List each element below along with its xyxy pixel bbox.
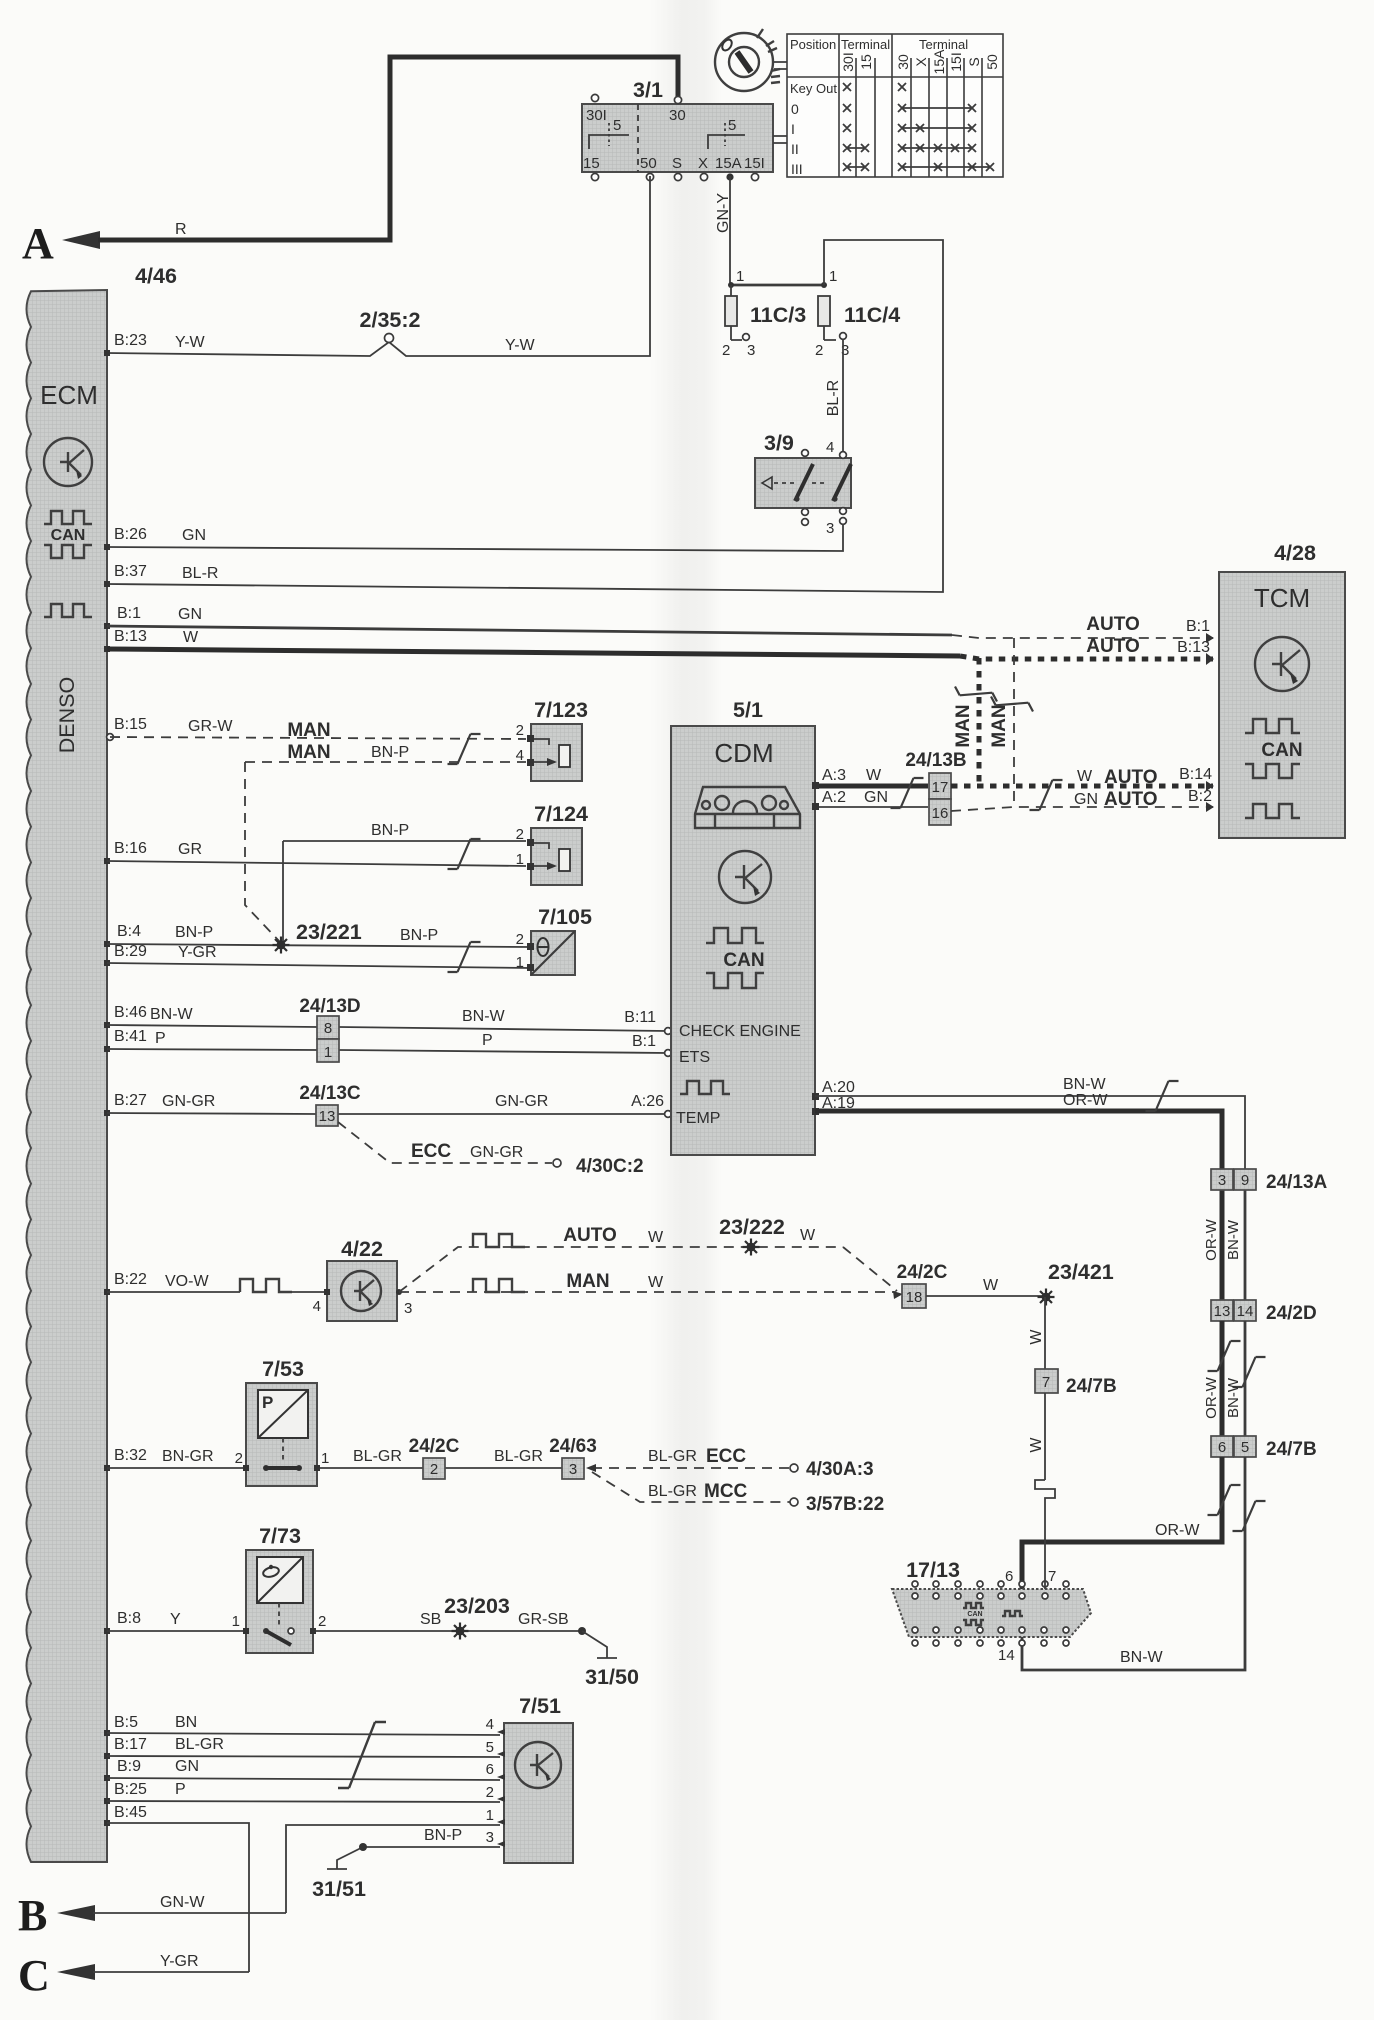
svg-text:B:26: B:26 (114, 526, 147, 543)
svg-text:B:4: B:4 (117, 923, 141, 940)
svg-text:BL-R: BL-R (182, 565, 218, 582)
svg-text:B:13: B:13 (1177, 639, 1210, 656)
svg-text:ETS: ETS (679, 1049, 710, 1066)
svg-text:2: 2 (516, 826, 524, 843)
svg-text:24/2C: 24/2C (409, 1436, 460, 1457)
svg-text:B:14: B:14 (1179, 766, 1212, 783)
svg-text:GN-GR: GN-GR (495, 1093, 548, 1110)
svg-text:X: X (698, 155, 708, 172)
svg-text:1: 1 (232, 1613, 240, 1630)
svg-text:24/2D: 24/2D (1266, 1303, 1317, 1324)
svg-text:Y: Y (170, 1611, 181, 1628)
svg-text:B:32: B:32 (114, 1447, 147, 1464)
svg-text:GN-Y: GN-Y (715, 193, 732, 233)
svg-text:6: 6 (1005, 1568, 1013, 1585)
svg-text:15: 15 (583, 155, 600, 172)
svg-text:AUTO: AUTO (1104, 767, 1157, 788)
svg-text:ECM: ECM (40, 380, 98, 410)
svg-text:C: C (18, 1951, 50, 2000)
svg-text:31/51: 31/51 (312, 1877, 366, 1901)
svg-text:4/30A:3: 4/30A:3 (806, 1459, 874, 1480)
svg-text:B:17: B:17 (114, 1736, 147, 1753)
svg-text:BN-W: BN-W (462, 1008, 506, 1025)
svg-text:W: W (648, 1274, 664, 1291)
svg-text:A:3: A:3 (822, 767, 846, 784)
svg-text:OR-W: OR-W (1063, 1092, 1108, 1109)
svg-text:B:5: B:5 (114, 1714, 138, 1731)
svg-text:GN: GN (1074, 791, 1098, 808)
svg-text:1: 1 (321, 1450, 329, 1467)
svg-text:3: 3 (404, 1300, 412, 1317)
svg-text:30I: 30I (586, 107, 607, 124)
svg-text:VO-W: VO-W (165, 1273, 209, 1290)
svg-text:W: W (866, 767, 882, 784)
svg-text:B:22: B:22 (114, 1271, 147, 1288)
svg-text:B:9: B:9 (117, 1758, 141, 1775)
svg-text:B:1: B:1 (117, 605, 141, 622)
svg-text:0: 0 (791, 101, 799, 117)
svg-text:5/1: 5/1 (733, 698, 763, 722)
svg-text:GN: GN (178, 606, 202, 623)
svg-text:B:16: B:16 (114, 840, 147, 857)
svg-text:AUTO: AUTO (1104, 789, 1157, 810)
svg-text:BN-W: BN-W (1120, 1649, 1164, 1666)
svg-text:OR-W: OR-W (1203, 1376, 1220, 1418)
svg-text:14: 14 (1237, 1303, 1254, 1320)
svg-text:DENSO: DENSO (55, 677, 79, 753)
svg-text:3/57B:22: 3/57B:22 (806, 1494, 884, 1515)
svg-text:7/53: 7/53 (262, 1357, 304, 1381)
svg-text:2: 2 (318, 1613, 326, 1630)
svg-text:4/30C:2: 4/30C:2 (576, 1156, 644, 1177)
svg-text:BN-W: BN-W (1225, 1219, 1242, 1260)
svg-text:24/13B: 24/13B (905, 750, 966, 771)
svg-text:4/46: 4/46 (135, 264, 177, 288)
svg-text:II: II (791, 141, 799, 157)
svg-text:OR-W: OR-W (1203, 1218, 1220, 1260)
svg-text:18: 18 (906, 1289, 923, 1306)
svg-text:17: 17 (932, 779, 949, 796)
svg-text:5: 5 (728, 117, 736, 134)
svg-text:15A: 15A (931, 49, 947, 75)
svg-text:MAN: MAN (287, 742, 330, 763)
svg-text:MAN: MAN (287, 720, 330, 741)
svg-text:B:2: B:2 (1188, 788, 1212, 805)
svg-text:Y-GR: Y-GR (160, 1953, 199, 1970)
svg-text:11C/4: 11C/4 (844, 303, 900, 327)
svg-text:AUTO: AUTO (1086, 614, 1139, 635)
svg-text:W: W (648, 1229, 664, 1246)
svg-text:7/51: 7/51 (519, 1694, 561, 1718)
svg-text:OR-W: OR-W (1155, 1522, 1200, 1539)
svg-text:BL-GR: BL-GR (648, 1483, 697, 1500)
svg-text:7: 7 (1048, 1568, 1056, 1585)
svg-text:24/7B: 24/7B (1266, 1439, 1317, 1460)
svg-text:BL-GR: BL-GR (175, 1736, 224, 1753)
svg-text:16: 16 (932, 805, 949, 822)
svg-text:A:2: A:2 (822, 789, 846, 806)
svg-text:B:46: B:46 (114, 1004, 147, 1021)
svg-text:B:13: B:13 (114, 628, 147, 645)
svg-text:CAN: CAN (967, 1611, 982, 1618)
svg-text:GN-GR: GN-GR (470, 1144, 523, 1161)
svg-text:BN-P: BN-P (371, 744, 409, 761)
svg-text:B:27: B:27 (114, 1092, 147, 1109)
svg-text:23/421: 23/421 (1048, 1260, 1114, 1284)
svg-text:17/13: 17/13 (906, 1558, 960, 1582)
svg-text:6: 6 (486, 1761, 494, 1778)
svg-text:15A: 15A (715, 155, 742, 172)
svg-text:BL-GR: BL-GR (353, 1448, 402, 1465)
svg-text:S: S (966, 57, 982, 66)
svg-text:7/105: 7/105 (538, 905, 592, 929)
svg-text:3: 3 (826, 520, 834, 537)
svg-text:GR-W: GR-W (188, 718, 233, 735)
svg-text:14: 14 (998, 1647, 1015, 1664)
svg-text:S: S (672, 155, 682, 172)
svg-text:B: B (18, 1891, 47, 1940)
svg-text:30: 30 (669, 107, 686, 124)
svg-text:CDM: CDM (714, 738, 773, 768)
svg-text:1: 1 (736, 268, 744, 285)
svg-text:CHECK ENGINE: CHECK ENGINE (679, 1023, 801, 1040)
svg-text:BN-P: BN-P (424, 1827, 462, 1844)
svg-text:Y-W: Y-W (505, 337, 536, 354)
svg-text:2: 2 (722, 342, 730, 359)
svg-text:11C/3: 11C/3 (750, 303, 806, 327)
svg-text:4/28: 4/28 (1274, 541, 1316, 565)
svg-text:I: I (791, 121, 795, 137)
svg-text:TEMP: TEMP (676, 1110, 720, 1127)
svg-text:GN-W: GN-W (160, 1894, 205, 1911)
svg-text:24/13C: 24/13C (299, 1083, 361, 1104)
svg-text:5: 5 (613, 117, 621, 134)
svg-text:15I: 15I (948, 52, 964, 71)
svg-text:P: P (262, 1393, 273, 1412)
svg-text:BN-W: BN-W (1225, 1377, 1242, 1418)
svg-text:8: 8 (324, 1020, 332, 1037)
svg-text:MAN: MAN (953, 704, 974, 747)
svg-text:MAN: MAN (566, 1271, 609, 1292)
svg-text:4: 4 (486, 1716, 494, 1733)
svg-text:3: 3 (486, 1829, 494, 1846)
svg-text:5: 5 (1241, 1439, 1249, 1456)
svg-text:W: W (983, 1277, 999, 1294)
svg-text:BL-GR: BL-GR (648, 1448, 697, 1465)
svg-text:BN: BN (175, 1714, 197, 1731)
svg-text:MCC: MCC (704, 1481, 748, 1502)
svg-text:2: 2 (235, 1450, 243, 1467)
svg-text:15: 15 (858, 54, 874, 70)
svg-text:Terminal: Terminal (841, 37, 890, 52)
svg-text:24/7B: 24/7B (1066, 1376, 1117, 1397)
svg-text:SB: SB (420, 1611, 441, 1628)
svg-text:2: 2 (815, 342, 823, 359)
svg-text:BN-P: BN-P (371, 822, 409, 839)
svg-text:Key Out: Key Out (790, 81, 837, 96)
svg-text:P: P (482, 1032, 493, 1049)
svg-text:B:45: B:45 (114, 1804, 147, 1821)
svg-text:23/203: 23/203 (444, 1594, 510, 1618)
svg-text:BN-W: BN-W (150, 1006, 194, 1023)
svg-text:W: W (1028, 1437, 1045, 1453)
svg-text:W: W (800, 1227, 816, 1244)
svg-text:P: P (175, 1781, 186, 1798)
svg-text:B:37: B:37 (114, 563, 147, 580)
svg-text:3: 3 (569, 1461, 577, 1478)
svg-text:B:41: B:41 (114, 1028, 147, 1045)
svg-text:P: P (155, 1030, 166, 1047)
svg-text:4: 4 (826, 439, 834, 456)
svg-text:R: R (175, 221, 187, 238)
svg-text:A:26: A:26 (631, 1093, 664, 1110)
svg-text:GN: GN (182, 527, 206, 544)
svg-text:31/50: 31/50 (585, 1665, 639, 1689)
svg-text:B:23: B:23 (114, 332, 147, 349)
svg-text:AUTO: AUTO (563, 1225, 616, 1246)
svg-text:GR-SB: GR-SB (518, 1611, 569, 1628)
svg-text:1: 1 (486, 1807, 494, 1824)
svg-text:CAN: CAN (723, 950, 764, 971)
svg-text:W: W (1077, 768, 1093, 785)
svg-text:TCM: TCM (1254, 583, 1310, 613)
svg-text:1: 1 (829, 268, 837, 285)
svg-text:3/9: 3/9 (764, 431, 794, 455)
svg-text:24/13A: 24/13A (1266, 1172, 1328, 1193)
svg-text:X: X (913, 57, 929, 67)
svg-text:4: 4 (516, 747, 524, 764)
svg-text:BL-GR: BL-GR (494, 1448, 543, 1465)
svg-text:GN-GR: GN-GR (162, 1093, 215, 1110)
svg-text:2: 2 (430, 1461, 438, 1478)
svg-text:23/221: 23/221 (296, 920, 362, 944)
svg-text:6: 6 (1218, 1439, 1226, 1456)
svg-text:W: W (183, 629, 199, 646)
svg-text:A:20: A:20 (822, 1079, 855, 1096)
svg-text:2: 2 (486, 1784, 494, 1801)
svg-text:7/124: 7/124 (534, 802, 588, 826)
svg-text:50: 50 (640, 155, 657, 172)
svg-text:4: 4 (313, 1298, 321, 1315)
svg-text:24/2C: 24/2C (897, 1262, 948, 1283)
svg-text:3: 3 (1218, 1172, 1226, 1189)
svg-text:BN-P: BN-P (400, 927, 438, 944)
svg-text:GN: GN (864, 789, 888, 806)
svg-text:13: 13 (1214, 1303, 1231, 1320)
svg-text:B:25: B:25 (114, 1781, 147, 1798)
svg-text:A: A (22, 219, 54, 268)
svg-text:1: 1 (516, 954, 524, 971)
svg-text:7/73: 7/73 (259, 1524, 301, 1548)
svg-text:30: 30 (895, 54, 911, 70)
svg-text:AUTO: AUTO (1086, 636, 1139, 657)
svg-text:B:29: B:29 (114, 943, 147, 960)
svg-text:B:11: B:11 (624, 1009, 656, 1026)
svg-text:2: 2 (516, 722, 524, 739)
svg-text:15I: 15I (744, 155, 765, 172)
svg-text:2: 2 (516, 931, 524, 948)
svg-text:B:1: B:1 (632, 1033, 656, 1050)
svg-text:III: III (791, 161, 803, 177)
svg-text:MAN: MAN (989, 704, 1010, 747)
svg-text:2/35:2: 2/35:2 (360, 308, 421, 332)
svg-text:CAN: CAN (1261, 740, 1302, 761)
svg-text:30I: 30I (840, 52, 856, 71)
svg-text:24/13D: 24/13D (299, 996, 360, 1017)
svg-text:24/63: 24/63 (549, 1436, 597, 1457)
svg-text:23/222: 23/222 (719, 1215, 785, 1239)
svg-text:3/1: 3/1 (633, 78, 663, 102)
svg-text:13: 13 (319, 1108, 336, 1125)
svg-text:50: 50 (984, 54, 1000, 70)
svg-text:B:1: B:1 (1186, 618, 1210, 635)
svg-text:3: 3 (747, 342, 755, 359)
svg-text:BN-W: BN-W (1063, 1076, 1107, 1093)
svg-text:CAN: CAN (51, 527, 86, 544)
svg-text:7/123: 7/123 (534, 698, 588, 722)
svg-text:BN-GR: BN-GR (162, 1448, 214, 1465)
svg-text:1: 1 (516, 851, 524, 868)
svg-text:GN: GN (175, 1758, 199, 1775)
svg-text:W: W (1028, 1329, 1045, 1345)
svg-text:BL-R: BL-R (825, 380, 842, 416)
svg-text:1: 1 (324, 1044, 332, 1061)
svg-text:B:8: B:8 (117, 1610, 141, 1627)
svg-text:9: 9 (1241, 1172, 1249, 1189)
svg-text:Position: Position (790, 37, 836, 52)
svg-text:ECC: ECC (411, 1141, 451, 1162)
svg-text:4/22: 4/22 (341, 1237, 383, 1261)
svg-text:GR: GR (178, 841, 202, 858)
svg-text:5: 5 (486, 1739, 494, 1756)
svg-text:7: 7 (1042, 1374, 1050, 1391)
svg-text:Y-W: Y-W (175, 334, 206, 351)
svg-text:BN-P: BN-P (175, 924, 213, 941)
svg-text:Y-GR: Y-GR (178, 944, 217, 961)
svg-text:B:15: B:15 (114, 716, 147, 733)
svg-text:ECC: ECC (706, 1446, 746, 1467)
